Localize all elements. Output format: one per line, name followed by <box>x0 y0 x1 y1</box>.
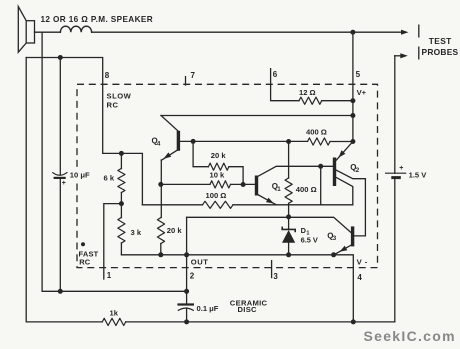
svg-text:3: 3 <box>333 235 337 242</box>
svg-text:RC: RC <box>79 258 91 267</box>
svg-text:0.1 μF: 0.1 μF <box>197 304 219 313</box>
svg-text:10 μF: 10 μF <box>70 170 90 179</box>
svg-text:3: 3 <box>273 272 278 281</box>
svg-text:20 k: 20 k <box>167 226 183 235</box>
svg-text:3 k: 3 k <box>131 228 142 237</box>
svg-text:+: + <box>399 165 403 172</box>
svg-text:1: 1 <box>277 186 281 193</box>
svg-text:7: 7 <box>191 71 196 80</box>
svg-text:6.5 V: 6.5 V <box>301 235 318 244</box>
svg-text:100 Ω: 100 Ω <box>206 191 227 200</box>
svg-text:12 OR 16 Ω P.M. SPEAKER: 12 OR 16 Ω P.M. SPEAKER <box>41 15 154 24</box>
svg-text:2: 2 <box>190 272 195 281</box>
svg-text:V+: V+ <box>357 88 367 97</box>
svg-text:DISC: DISC <box>238 305 258 314</box>
svg-text:20 k: 20 k <box>211 151 227 160</box>
svg-text:8: 8 <box>105 71 110 80</box>
svg-text:1: 1 <box>306 231 309 237</box>
svg-text:10 k: 10 k <box>210 170 226 179</box>
svg-text:RC: RC <box>107 101 119 110</box>
svg-text:6 k: 6 k <box>104 174 115 183</box>
svg-text:4: 4 <box>157 140 161 147</box>
svg-text:+: + <box>62 180 66 187</box>
svg-text:400 Ω: 400 Ω <box>296 185 317 194</box>
svg-text:6: 6 <box>273 70 278 79</box>
svg-text:TEST: TEST <box>429 36 452 46</box>
svg-text:12 Ω: 12 Ω <box>299 88 316 97</box>
svg-text:1.5 V: 1.5 V <box>409 171 428 180</box>
svg-text:OUT: OUT <box>191 257 209 266</box>
svg-text:SeekIC.com: SeekIC.com <box>364 328 456 344</box>
svg-text:2: 2 <box>356 167 360 174</box>
svg-text:400 Ω: 400 Ω <box>306 128 327 137</box>
svg-text:1: 1 <box>107 271 112 280</box>
svg-text:1k: 1k <box>110 309 119 318</box>
svg-text:5: 5 <box>356 70 361 79</box>
svg-text:SLOW: SLOW <box>107 92 132 101</box>
svg-text:4: 4 <box>357 273 362 282</box>
svg-text:V -: V - <box>357 257 368 266</box>
svg-text:PROBES: PROBES <box>422 47 459 57</box>
